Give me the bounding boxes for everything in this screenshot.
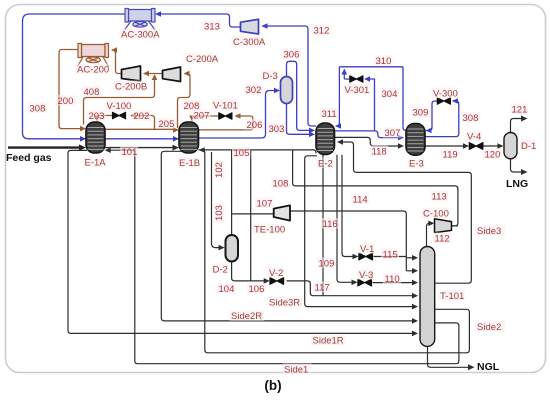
arrow 205 into E-1B left	[173, 127, 179, 133]
arrow into V-100 right	[130, 113, 136, 119]
wire 114 E-2 bottom to V-1	[342, 155, 356, 257]
svg-text:V-3: V-3	[359, 270, 373, 281]
arrow into V-301 right	[364, 76, 370, 82]
svg-text:Side3R: Side3R	[269, 298, 300, 309]
svg-text:109: 109	[319, 259, 335, 270]
arrow into AC-200 right	[111, 47, 117, 53]
valve V-300	[437, 98, 450, 105]
arrow 101 into E-1B	[173, 145, 180, 151]
expander TE-100	[274, 205, 290, 220]
svg-text:C-300A: C-300A	[233, 37, 266, 48]
wire feed gas thick	[8, 146, 81, 148]
svg-text:D-1: D-1	[521, 141, 536, 152]
svg-text:V-2: V-2	[269, 268, 283, 279]
separator D-2	[226, 235, 239, 262]
wire 118 E-2 to E-3	[335, 137, 402, 146]
wire V-301 left stub	[344, 78, 349, 80]
svg-text:V-301: V-301	[345, 85, 370, 96]
wire 308 E-3 right exit up to V-300	[425, 101, 459, 137]
heat exchanger E-1A	[86, 122, 105, 153]
arrow 408 up into intercompressor line	[152, 74, 158, 80]
wire 203 V-100 out into E-1A top	[97, 116, 112, 121]
arrow 112 into C-100	[428, 221, 434, 227]
svg-text:Side1: Side1	[284, 365, 308, 376]
compressor C-200B	[122, 66, 141, 81]
wire C-200B out up to AC-200	[112, 50, 122, 74]
svg-text:103: 103	[214, 205, 225, 221]
svg-text:107: 107	[257, 199, 273, 210]
arrow into D-2 left	[219, 245, 225, 251]
arrow 203 down into E-1A top	[94, 116, 100, 122]
arrow 312 into C-300A right	[262, 23, 268, 29]
wire 117 V-2 out to column	[287, 281, 415, 296]
svg-text:106: 106	[249, 284, 265, 295]
svg-text:Side3: Side3	[477, 226, 501, 237]
arrow into D-3 left	[274, 88, 280, 94]
wire 304 riser from 307 line to V-301	[366, 79, 375, 131]
wire 105 E-1B to E-2 bottom	[199, 150, 317, 154]
svg-text:117: 117	[315, 283, 330, 294]
arrow 306 into E-2 left	[309, 128, 315, 134]
wire 113 C-100 outlet stub	[452, 225, 458, 227]
heat exchanger E-3	[406, 124, 425, 156]
wire 110 V-3 out to column	[373, 282, 415, 284]
svg-text:113: 113	[432, 192, 447, 203]
arrow Side3 into E-2 right	[337, 139, 343, 145]
svg-text:304: 304	[382, 89, 398, 100]
arrow Side1 into E-1A bottom	[105, 147, 111, 153]
arrow into E-1B left blue	[173, 136, 179, 142]
svg-text:Feed gas: Feed gas	[6, 152, 52, 164]
svg-text:V-101: V-101	[213, 101, 238, 112]
compressor C-200A	[163, 67, 181, 82]
arrow 117 into column	[412, 293, 418, 299]
svg-text:118: 118	[372, 147, 387, 158]
svg-text:312: 312	[314, 26, 330, 37]
label 103 rotated	[214, 204, 225, 223]
wire 120 V-4 to D-1	[483, 145, 501, 147]
svg-text:D-3: D-3	[263, 71, 278, 82]
wire 113 return riser into E-2 bottom	[293, 150, 458, 226]
svg-text:202: 202	[134, 111, 150, 122]
svg-text:Side2: Side2	[477, 322, 501, 333]
svg-text:303: 303	[269, 124, 285, 135]
svg-text:116: 116	[323, 219, 338, 230]
wire LNG from D-1 bottom	[511, 159, 524, 172]
wire NGL from T-101 bottom	[428, 346, 471, 367]
wire 105 branch down to V-2 line	[250, 150, 252, 281]
wire 119 E-3 to V-4	[425, 145, 466, 147]
wire 313 AC-300A to left header	[23, 14, 126, 21]
wire 308 left vertical down to E-1A	[23, 20, 87, 139]
svg-text:309: 309	[413, 108, 429, 119]
wire 208 E-1B vapor to C-200A	[178, 74, 191, 129]
heat exchanger E-2	[316, 123, 335, 155]
wire 206 E-1B out riser to V-101	[199, 116, 254, 130]
wire 310 header	[339, 66, 403, 68]
arrow 303 into E-2 left	[309, 132, 315, 138]
arrow into V-101 right	[235, 113, 241, 119]
wire 109 stub into column	[406, 270, 414, 272]
wire 202 riser from 205 line to V-100	[131, 116, 155, 130]
valve V-1	[359, 253, 373, 260]
separator D-3	[281, 77, 293, 104]
valve V-3	[358, 279, 372, 286]
valve V-4	[469, 143, 483, 150]
svg-text:110: 110	[385, 274, 400, 285]
heat exchanger E-1B	[179, 122, 199, 153]
valve V-301	[350, 76, 363, 83]
arrow Side2 into E-1B bottom	[199, 147, 205, 153]
arrow into V-2	[264, 278, 270, 284]
separator D-1	[504, 133, 517, 159]
arrow Side3R into column	[412, 304, 418, 310]
wire V-301 riser to header	[343, 71, 345, 79]
wire 109 E-2 bottom to V-3	[337, 155, 355, 282]
arrow 307 into E-3 left	[398, 135, 404, 141]
svg-text:C-100: C-100	[423, 209, 449, 220]
wire 121 D-1 top vapor	[511, 119, 524, 133]
svg-text:E-1A: E-1A	[85, 158, 107, 169]
wire Side3 column to E-2 right	[342, 142, 472, 283]
arrow up into header	[342, 69, 348, 75]
wire 115 V-1 out	[374, 256, 407, 258]
arrow into C-200A right	[184, 71, 190, 77]
wire 302 E-1B to D-3	[199, 91, 278, 139]
arrow 110 into column	[412, 280, 418, 286]
svg-text:302: 302	[246, 85, 262, 96]
svg-text:119: 119	[443, 150, 458, 161]
wire C-200A out to C-200B	[144, 73, 164, 75]
svg-text:TE-100: TE-100	[254, 225, 285, 236]
column T-101	[420, 247, 435, 347]
wire 311 header drop into E-2 top	[336, 67, 340, 126]
arrow 121	[521, 116, 528, 122]
svg-text:V-100: V-100	[107, 101, 132, 112]
wire Side2R E-1B bottom to column	[161, 151, 414, 321]
svg-text:207: 207	[194, 111, 210, 122]
wire 307 E-2 right to E-3	[335, 131, 402, 138]
wire Side1R E-1A bottom to column	[68, 150, 414, 333]
arrow 120 into D-1	[498, 143, 504, 149]
svg-text:AC-200: AC-200	[77, 65, 109, 76]
valve V-100	[112, 112, 125, 119]
wire TE-100 out to column manifold	[290, 211, 406, 271]
svg-text:C-200B: C-200B	[115, 82, 147, 93]
arrow into E-1A left blue	[80, 136, 86, 142]
svg-text:105: 105	[234, 148, 250, 159]
arrow into V-300 right	[452, 98, 458, 104]
arrow Side2R into column	[412, 318, 418, 324]
svg-text:NGL: NGL	[477, 361, 500, 373]
arrow into C-200B right	[143, 71, 149, 77]
svg-text:408: 408	[84, 87, 100, 98]
arrow into V-3	[352, 280, 358, 286]
wire 107 TE-100 feed	[232, 213, 274, 215]
arrow 200 into E-1A left	[80, 126, 86, 132]
svg-text:205: 205	[159, 119, 175, 130]
air cooler AC-200	[78, 44, 109, 67]
wire 303 D-3 bottom to E-2	[287, 104, 313, 135]
wire Side3R E-2 bottom to column	[305, 156, 415, 307]
svg-text:310: 310	[376, 56, 392, 67]
wire 104 D-2 bottom to V-2	[232, 261, 267, 281]
svg-text:E-3: E-3	[409, 159, 424, 170]
wire Side1 column to E-1A bottom	[111, 150, 459, 364]
svg-text:121: 121	[512, 105, 528, 116]
svg-text:E-1B: E-1B	[179, 158, 200, 169]
valve V-101	[219, 113, 232, 120]
svg-text:T-101: T-101	[440, 291, 464, 302]
arrow 109 into column	[412, 268, 418, 274]
svg-text:308: 308	[30, 104, 46, 115]
wire 312 E-2 top to C-300A	[262, 26, 316, 126]
air cooler AC-300A	[125, 9, 156, 31]
wire 310 drop into E-3 top left	[403, 67, 408, 131]
svg-text:203: 203	[89, 111, 105, 122]
arrow into AC-300A right	[155, 11, 161, 17]
svg-text:115: 115	[383, 250, 398, 261]
wire 116 E-2 bottom drop to 117 line	[322, 155, 324, 296]
arrow Side1R into column	[412, 331, 418, 337]
svg-text:V-300: V-300	[433, 89, 458, 100]
wire E-1B line down into D-2 top	[231, 150, 233, 235]
arrow into V-1	[353, 254, 359, 260]
svg-text:311: 311	[322, 109, 337, 120]
wire 200 AC-200 out to E-1A top left	[59, 50, 83, 129]
svg-text:114: 114	[353, 195, 368, 206]
svg-text:E-2: E-2	[318, 159, 333, 170]
wire 101 E-1A to E-1B	[105, 147, 174, 149]
label 102 rotated	[214, 161, 225, 180]
svg-text:306: 306	[284, 50, 300, 61]
wire 102 103 E-1B liquid to D-2 left	[212, 152, 222, 248]
wire 115 stub into column	[406, 257, 414, 259]
svg-text:307: 307	[385, 128, 401, 139]
wire 306 D-3 top to E-2	[287, 61, 313, 130]
wire 112 column top to C-100	[427, 223, 433, 246]
svg-text:D-2: D-2	[213, 265, 228, 276]
wire 205 E-1A to E-1B top	[105, 128, 176, 130]
arrow 311 into E-2 top right	[335, 123, 341, 129]
svg-text:200: 200	[58, 96, 74, 107]
arrow 115 into column	[412, 255, 418, 261]
arrow NGL	[468, 364, 475, 370]
svg-text:AC-300A: AC-300A	[121, 30, 160, 41]
arrow 309 into E-3 top right	[426, 128, 432, 134]
svg-text:313: 313	[204, 22, 220, 33]
svg-text:(b): (b)	[264, 378, 281, 393]
wire Side2 column to E-1B bottom	[202, 150, 470, 353]
svg-text:C-200A: C-200A	[186, 54, 219, 65]
wire 408 E-1A vapor to compressor junction	[84, 77, 155, 125]
svg-text:108: 108	[273, 179, 289, 190]
wire 207 V-101 out into E-1B top	[192, 116, 219, 120]
arrow into V-4	[463, 143, 469, 149]
svg-text:102: 102	[214, 162, 225, 178]
arrow 118 into E-3	[398, 143, 404, 149]
svg-text:112: 112	[435, 234, 450, 245]
arrow LNG	[521, 169, 528, 175]
wire blue E-1A to E-1B	[105, 138, 179, 140]
svg-text:120: 120	[485, 150, 501, 161]
svg-text:Side2R: Side2R	[231, 311, 262, 322]
svg-text:Side1R: Side1R	[313, 336, 344, 347]
svg-text:206: 206	[247, 120, 263, 131]
wire 309 V-300 out into E-3 top	[426, 101, 437, 131]
arrow 207 down into E-1B top	[189, 116, 195, 122]
compressor C-300A	[241, 19, 259, 34]
svg-text:V-1: V-1	[360, 244, 374, 255]
svg-text:308: 308	[463, 113, 479, 124]
svg-text:101: 101	[122, 147, 138, 158]
svg-text:104: 104	[219, 284, 235, 295]
valve V-2	[270, 277, 284, 284]
svg-text:LNG: LNG	[506, 178, 528, 190]
compressor C-100	[435, 219, 452, 233]
arrow feed into E-1A	[79, 144, 86, 150]
wire C-300A out to AC-300A	[157, 14, 241, 27]
svg-text:V-4: V-4	[467, 132, 481, 143]
